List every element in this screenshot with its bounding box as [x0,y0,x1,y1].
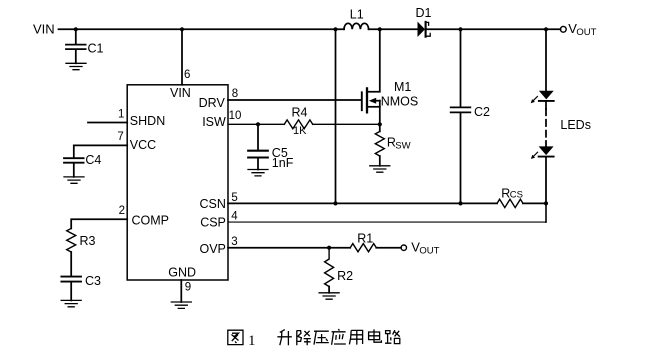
svg-text:CSN: CSN [199,197,225,211]
wire GND pin 9 [180,280,182,302]
glyph tu (图) [228,330,243,344]
junction CSN LED node [544,201,548,205]
wire OVP pin 3 [228,247,350,249]
body arrow [376,100,380,102]
glyph sheng (升) [277,330,291,346]
ground (C5) [248,170,268,176]
wire C5 stub [257,124,259,169]
gate bar [361,92,363,110]
wire R1 to VOUT terminal [376,247,401,249]
source stub [367,106,380,108]
svg-text:R1: R1 [357,232,373,246]
wire ISW pin 10 [228,123,380,125]
junction R1 R2 [327,246,331,250]
junction C1 top [74,27,78,31]
ground (GND pin) [171,302,191,308]
svg-text:DRV: DRV [199,96,226,110]
wire LED branch upper [545,29,547,90]
channel segments [366,88,368,112]
svg-text:VIN: VIN [170,86,191,100]
drain stub and wire [367,29,380,91]
svg-text:GND: GND [168,266,196,280]
wire top rail VIN to L1 [59,28,345,30]
svg-text:5: 5 [231,192,237,204]
junction C5 top [256,122,260,126]
capacitor C4 [64,158,84,163]
svg-text:CSP: CSP [200,216,226,230]
wire DRV pin 8 to gate [228,99,361,101]
junction C2 top [458,27,462,31]
ground (R2) [319,293,339,299]
glyph yong (用) [349,330,362,344]
svg-text:CS: CS [510,189,523,200]
wire pin 6 [181,29,183,85]
svg-text:1: 1 [248,333,256,349]
resistor R3 [67,228,76,252]
wire COMP pin 2 [71,219,127,228]
wire R3 to C3 [70,252,72,276]
wire VCC pin 7 [74,145,127,157]
svg-text:R4: R4 [292,105,308,119]
glyph lu (路) [385,330,400,343]
transistor M1 [362,29,380,131]
capacitor C3 [61,277,81,282]
svg-text:9: 9 [185,281,191,293]
svg-text:1nF: 1nF [272,156,294,170]
LED D3 [531,146,554,159]
junction source / ISW [378,122,382,126]
svg-text:C1: C1 [88,41,104,55]
resistor Rcs [497,199,523,207]
ground (C3) [61,300,81,306]
glyph ying (应) [332,329,346,345]
wire RSW to ground [379,156,381,166]
wire top rail L1 to D1 [369,28,418,30]
wire C3 to ground [70,283,72,301]
caption figure 1 text [228,329,400,345]
junction LED branch top [544,27,548,31]
terminal VOUT top [560,26,566,32]
wire top rail D1 to VOUT terminal [426,28,561,30]
svg-text:6: 6 [184,69,190,81]
svg-text:8: 8 [232,88,238,100]
svg-text:NMOS: NMOS [381,94,419,108]
LED D2 [531,91,554,104]
svg-text:VCC: VCC [130,138,156,152]
wire LED dashed link [545,102,547,109]
wire C4 to ground [73,164,75,177]
junction VIN pin 6 [180,27,184,31]
wire R2 to ground [328,287,330,293]
svg-text:R3: R3 [80,234,96,248]
svg-text:2: 2 [119,205,125,217]
glyph jiang (降) [297,330,311,345]
wire CSP pin 4 [545,203,547,222]
svg-text:M1: M1 [394,80,411,94]
svg-text:L1: L1 [350,7,364,21]
wire CSN pin 5 [228,202,546,204]
svg-text:C4: C4 [85,153,101,167]
svg-text:SW: SW [395,140,410,151]
svg-text:3: 3 [231,236,237,248]
inductor L1 [344,23,369,29]
wire C1 stub [75,29,77,63]
svg-text:D1: D1 [416,6,432,20]
wire vertical L1-left to CSN [335,29,337,203]
ground (C1) [66,63,86,69]
svg-text:LEDs: LEDs [560,118,591,132]
svg-text:COMP: COMP [132,213,170,227]
svg-text:10: 10 [229,110,242,122]
resistor R1 [350,244,376,252]
source vertical [379,101,381,132]
resistor RSW [375,131,384,156]
junction CSN sense vertical [333,201,337,205]
ground (C4) [64,177,84,183]
svg-text:ISW: ISW [202,115,226,129]
ground (RSW) [370,166,390,172]
svg-text:1: 1 [118,108,124,120]
wire C2 branch [460,29,462,203]
terminal VOUT bottom [401,245,406,250]
svg-text:OVP: OVP [199,242,225,256]
junction CSN C2 [458,201,462,205]
diode D1 [418,22,431,37]
capacitor C2 [451,107,471,112]
junction L1 left / sense vertical top [333,27,337,31]
svg-text:7: 7 [117,131,123,143]
svg-text:VIN: VIN [33,22,55,37]
resistor R2 [325,248,334,287]
svg-text:SHDN: SHDN [130,114,165,128]
svg-text:C3: C3 [85,274,101,288]
op IC body U1 [127,85,228,280]
pin 1 stub wire SHDN [88,122,127,124]
wire LED to CSN node [545,158,547,204]
svg-text:1K: 1K [293,125,307,137]
svg-text:R2: R2 [337,269,353,283]
svg-text:4: 4 [231,211,238,223]
capacitor C1 [66,45,86,50]
svg-text:OUT: OUT [576,27,596,38]
resistor R4 [284,120,312,129]
capacitor C5 [248,151,268,158]
svg-text:OUT: OUT [419,246,439,257]
glyph dian (电) [369,329,382,342]
glyph ya (压) [314,331,329,344]
svg-text:C2: C2 [474,105,490,119]
junction L1 right / drain [378,27,382,31]
